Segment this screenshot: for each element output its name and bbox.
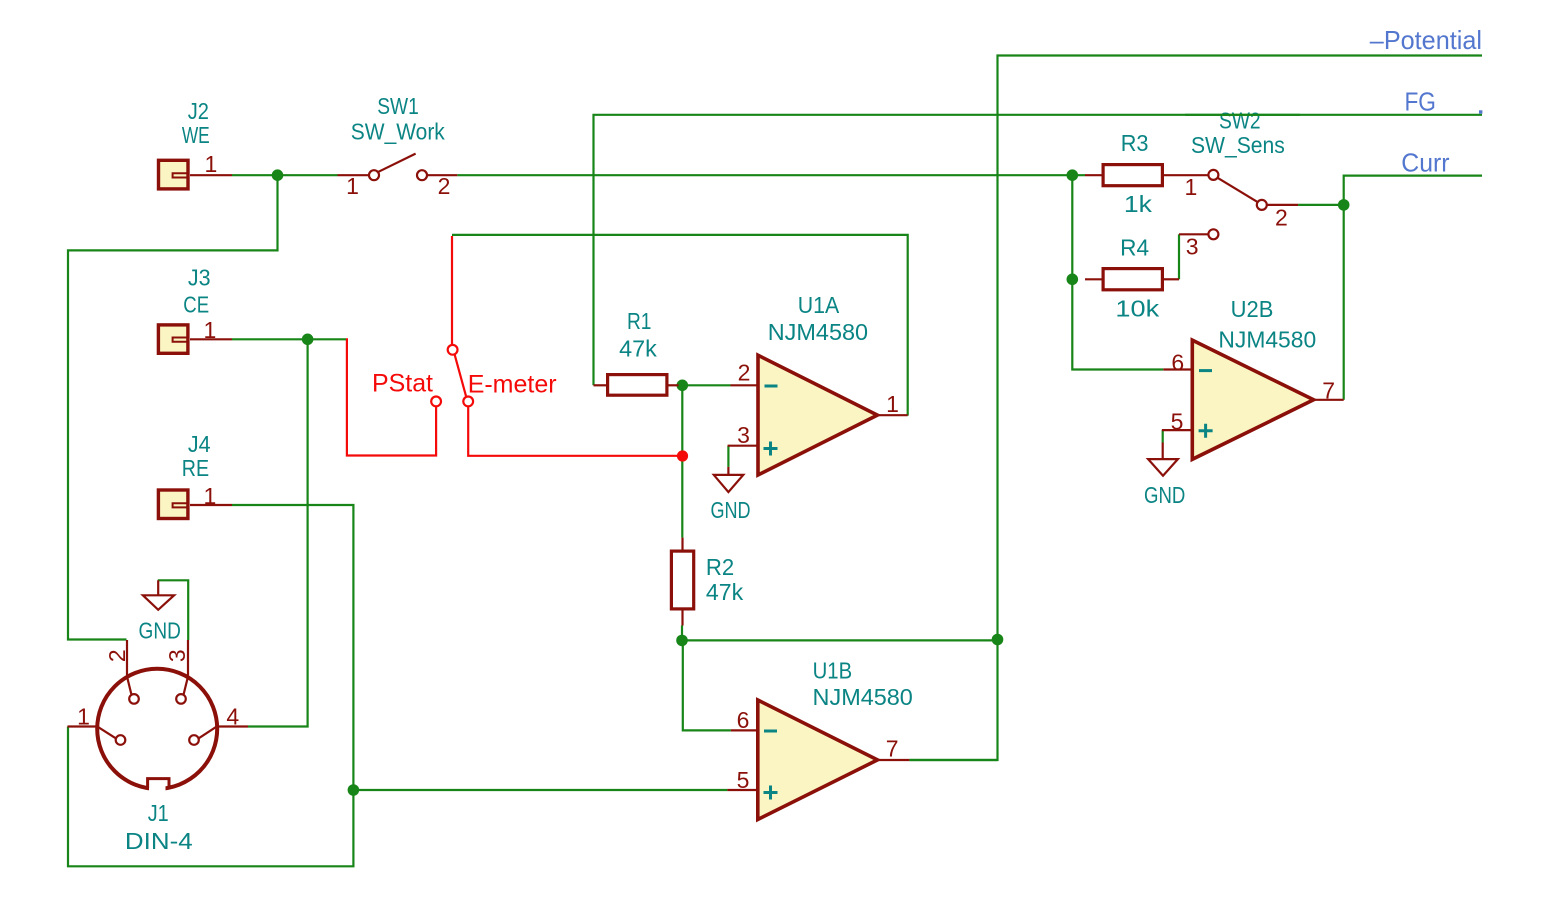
svg-text:GND: GND xyxy=(139,618,181,644)
SW2 pin 3 lead xyxy=(1179,233,1208,235)
wire E-meter throw to U1A pin3 node (red) xyxy=(468,407,682,456)
junction node at SW2 out/Curr xyxy=(1338,199,1350,211)
svg-text:2: 2 xyxy=(738,360,751,386)
svg-text:DIN-4: DIN-4 xyxy=(125,828,193,854)
svg-text:GND: GND xyxy=(710,497,750,523)
svg-text:FG: FG xyxy=(1404,87,1436,117)
wire U1B output to vertical rail xyxy=(909,759,997,761)
svg-text:U1A: U1A xyxy=(798,292,840,318)
svg-text:NJM4580: NJM4580 xyxy=(768,319,868,345)
junction node at R2 bottom xyxy=(676,635,688,647)
svg-text:GND: GND xyxy=(1144,482,1185,508)
svg-text:6: 6 xyxy=(737,707,750,733)
switch PStat/E-meter lever xyxy=(455,354,467,396)
svg-text:3: 3 xyxy=(1186,234,1199,260)
connector J2 body xyxy=(159,160,189,189)
resistor R2 xyxy=(671,551,693,609)
op-amp U1B xyxy=(758,700,878,820)
svg-text:J4: J4 xyxy=(188,431,211,457)
switch common contact circle xyxy=(448,345,458,355)
connector J3 pin 1 xyxy=(190,338,232,340)
junction node at vertical rail/R2 line xyxy=(992,634,1004,646)
svg-text:5: 5 xyxy=(1171,409,1184,435)
U1B pin 7 output lead xyxy=(878,759,910,761)
connector J3 body xyxy=(158,325,188,353)
resistor R3 xyxy=(1103,165,1162,186)
svg-text:7: 7 xyxy=(1322,377,1335,403)
resistor R4 xyxy=(1103,269,1162,290)
U2B pin 7 output lead xyxy=(1314,399,1344,401)
svg-text:1k: 1k xyxy=(1124,191,1153,217)
svg-text:Curr: Curr xyxy=(1401,147,1450,177)
ground at J1 xyxy=(157,580,159,595)
svg-text:RE: RE xyxy=(182,455,209,481)
junction node at R1/U1A pin2 xyxy=(677,380,689,392)
wire PStat throw to CE net (red) xyxy=(346,339,436,455)
svg-text:2: 2 xyxy=(438,173,451,199)
connector J1 pin 3 xyxy=(184,640,189,695)
U1A pin 2 lead xyxy=(731,384,759,386)
wire R3/R4 left vertical to U2B pin6 xyxy=(1072,175,1163,369)
wire R4 right to SW2 pin3 xyxy=(1178,234,1180,279)
svg-text:R4: R4 xyxy=(1120,234,1149,260)
J1 pin number 3 (rotated) xyxy=(164,649,190,662)
U1A non-inverting input sign xyxy=(764,442,778,456)
svg-text:10k: 10k xyxy=(1115,295,1159,321)
connector J1 pin 4 xyxy=(199,727,248,739)
FG label anchor dot xyxy=(1479,110,1482,113)
U2B inverting input sign xyxy=(1199,369,1212,372)
wire junction down to U1B pin6 xyxy=(683,640,731,730)
svg-text:3: 3 xyxy=(164,649,190,662)
wire SW1 pin2 to R3 xyxy=(457,174,1085,176)
U2B pin 6 lead xyxy=(1163,368,1192,370)
wire J1 GND symbol to pin3 xyxy=(158,580,188,640)
junction node at J2/SW1 xyxy=(272,169,284,181)
connector J1 pin 1 xyxy=(68,727,116,739)
svg-text:1: 1 xyxy=(205,151,218,177)
SW1 contact circle pin 2 xyxy=(417,170,427,180)
svg-text:–Potential: –Potential xyxy=(1370,25,1482,55)
J1 pin number 2 (rotated) xyxy=(104,649,130,662)
svg-text:R1: R1 xyxy=(627,308,652,334)
wire FG overlay over SW2 label xyxy=(1185,114,1300,116)
switch PStat/E-meter common wire (red) xyxy=(451,236,453,345)
svg-text:PStat: PStat xyxy=(372,369,433,397)
svg-text:1: 1 xyxy=(77,704,90,730)
op-amp U1A xyxy=(758,355,877,475)
svg-text:7: 7 xyxy=(886,736,899,762)
SW1 lever xyxy=(378,154,415,172)
svg-text:2: 2 xyxy=(1275,205,1288,231)
connector J2 pin 1 xyxy=(190,174,232,176)
svg-text:47k: 47k xyxy=(706,579,744,605)
svg-text:J1: J1 xyxy=(148,800,169,826)
svg-text:NJM4580: NJM4580 xyxy=(813,684,913,710)
wire J3 pin to PStat branch xyxy=(232,338,346,340)
resistor R1 xyxy=(608,375,667,396)
wire junction to U1B pin5 xyxy=(353,789,727,791)
SW2 pin 2 lead xyxy=(1267,204,1298,206)
U1B inverting input sign xyxy=(764,730,777,733)
wire R1 right junction to U1A pin2 xyxy=(679,384,731,386)
SW1 contact circle pin 1 xyxy=(369,170,379,180)
junction node at R3 left xyxy=(1067,169,1079,181)
wire E-meter common to U1A output loop xyxy=(452,235,908,416)
wire J4 pin down around to J1 pin1 xyxy=(68,505,353,866)
SW2 contact circle pin 3 xyxy=(1208,229,1218,239)
wire net R2 bottom to vertical rail xyxy=(682,639,998,641)
U1B pin 5 lead xyxy=(727,789,757,791)
wire J3 junction down to J1 pin4 xyxy=(248,339,308,726)
wire net -Potential: top rail and vertical to U1B output xyxy=(909,56,1482,761)
svg-text:CE: CE xyxy=(183,292,209,318)
switch PStat throw circle xyxy=(431,397,441,407)
svg-text:SW2: SW2 xyxy=(1219,107,1261,133)
wire SW2 pin2 to Curr junction xyxy=(1298,204,1344,206)
SW1 pin 2 lead xyxy=(427,174,457,176)
connector J1 pin 2 xyxy=(127,640,132,695)
svg-text:SW1: SW1 xyxy=(377,93,419,119)
svg-text:1: 1 xyxy=(1185,174,1198,200)
junction node at J4/U1B pin5 xyxy=(348,784,360,796)
U1A pin 3 lead xyxy=(728,445,758,447)
wire J2 pin to SW1 xyxy=(232,174,338,176)
ground at U1A pin3 xyxy=(727,467,729,475)
wire J2 branch down-left to J1 pin2 xyxy=(68,175,278,639)
U1B non-inverting input sign xyxy=(764,786,778,800)
wire U2B pin5 to GND xyxy=(1162,430,1164,442)
svg-text:SW_Sens: SW_Sens xyxy=(1191,132,1285,158)
svg-text:E-meter: E-meter xyxy=(468,371,557,399)
svg-text:U1B: U1B xyxy=(813,658,853,684)
wire net FG: rail and vertical down to R1 left xyxy=(594,115,1483,386)
connector J1 DIN-4 body xyxy=(97,669,217,789)
U1A pin 1 output lead xyxy=(877,414,907,416)
svg-text:R3: R3 xyxy=(1121,130,1149,156)
svg-text:3: 3 xyxy=(737,422,750,448)
SW2 lever xyxy=(1218,178,1258,202)
junction node at J3 xyxy=(302,334,314,346)
svg-text:NJM4580: NJM4580 xyxy=(1218,327,1316,353)
svg-text:5: 5 xyxy=(737,767,750,793)
wire net Curr: from U2B output up and right xyxy=(1344,176,1482,400)
svg-text:1: 1 xyxy=(346,173,359,199)
svg-text:R2: R2 xyxy=(706,554,734,580)
wire R1 junction down to R2 top xyxy=(681,385,683,537)
connector J4 body xyxy=(158,490,188,519)
svg-text:WE: WE xyxy=(182,122,210,148)
SW1 pin 1 lead xyxy=(338,174,369,176)
svg-text:4: 4 xyxy=(226,704,239,730)
svg-text:J2: J2 xyxy=(188,98,209,124)
SW2 contact circle pin 2 xyxy=(1257,200,1267,210)
ground at U2B pin5 xyxy=(1162,443,1164,460)
connector J4 pin 1 xyxy=(190,504,232,506)
wire U1A pin3 to GND xyxy=(727,446,729,467)
U1A inverting input sign xyxy=(765,385,778,388)
U2B non-inverting input sign xyxy=(1199,424,1213,438)
svg-text:U2B: U2B xyxy=(1231,296,1274,322)
SW2 contact circle pin 1 xyxy=(1208,170,1218,180)
svg-text:1: 1 xyxy=(886,391,899,417)
svg-text:2: 2 xyxy=(104,649,130,662)
junction node at R4 left xyxy=(1067,274,1079,286)
wire R2 bottom stub to junction xyxy=(681,626,683,641)
svg-text:1: 1 xyxy=(204,317,217,343)
svg-text:J3: J3 xyxy=(188,264,211,290)
svg-text:6: 6 xyxy=(1171,350,1184,376)
op-amp U2B xyxy=(1192,340,1313,459)
U2B pin 5 lead xyxy=(1162,429,1192,431)
svg-text:SW_Work: SW_Work xyxy=(351,119,445,145)
junction node red at E-meter wire xyxy=(677,450,688,461)
svg-text:1: 1 xyxy=(204,483,217,509)
switch E-meter throw circle xyxy=(463,397,473,407)
svg-text:47k: 47k xyxy=(619,336,657,362)
U1B pin 6 lead xyxy=(731,729,758,731)
